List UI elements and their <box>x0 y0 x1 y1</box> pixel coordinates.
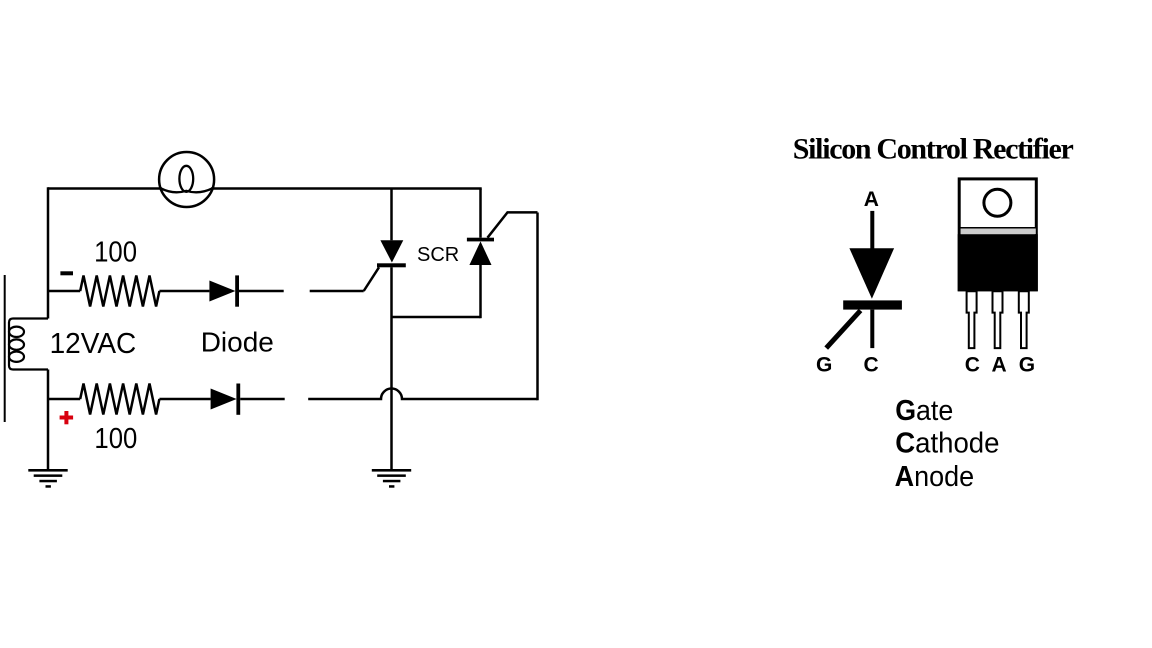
svg-text:100: 100 <box>94 237 137 269</box>
svg-text:G: G <box>1019 354 1035 377</box>
wire R1 to D1 <box>159 290 209 293</box>
SCR1 anode wire <box>390 189 393 241</box>
transformer T1 core line <box>4 275 6 422</box>
diode D1 <box>209 275 239 306</box>
svg-text:Anode: Anode <box>895 461 975 493</box>
wire SCR1 to SCR2 anode <box>392 316 481 319</box>
resistor R2 <box>80 384 159 415</box>
svg-text:100: 100 <box>94 423 137 455</box>
SCR symbol anode lead <box>870 211 874 250</box>
svg-text:G: G <box>816 353 832 376</box>
TO-220 package tab <box>959 179 1036 290</box>
minus polarity mark <box>60 271 73 275</box>
wire SCR1 cathode vertical <box>390 267 393 470</box>
plus polarity mark <box>60 411 74 424</box>
wire D1 right <box>239 290 284 293</box>
svg-text:A: A <box>992 354 1007 377</box>
svg-text:C: C <box>965 354 980 377</box>
ground GND2 <box>372 469 411 488</box>
wire R2 to D2 <box>159 398 210 401</box>
svg-text:12VAC: 12VAC <box>50 328 137 360</box>
transformer T1 secondary winding <box>9 319 48 370</box>
wire upper row left <box>48 290 80 293</box>
SCR symbol gate lead <box>826 311 860 349</box>
wire transformer lower vertical <box>47 370 50 471</box>
wire D2 right <box>240 398 285 401</box>
wire right vertical <box>536 213 539 401</box>
svg-text:SCR: SCR <box>417 244 459 266</box>
wire SCR1 gate lead <box>310 290 364 293</box>
SCR2 <box>467 238 494 265</box>
svg-text:Diode: Diode <box>201 327 274 358</box>
SCR symbol cathode lead <box>870 310 874 349</box>
wire SCR2 cathode vertical <box>479 189 482 238</box>
svg-text:C: C <box>864 353 879 376</box>
SCR1 <box>377 240 406 267</box>
resistor R1 <box>80 276 159 307</box>
TO-220 pin A <box>993 291 1003 348</box>
SCR symbol U1 <box>843 248 902 309</box>
diode D2 <box>211 384 241 415</box>
wire lower row right with hop <box>308 389 537 400</box>
svg-text:A: A <box>864 188 879 211</box>
SCR1 gate diagonal <box>364 267 379 291</box>
svg-text:Silicon Control Rectifier: Silicon Control Rectifier <box>793 132 1074 165</box>
svg-text:Gate: Gate <box>895 395 953 427</box>
lamp L1 <box>159 152 214 207</box>
wire SCR2 anode vertical <box>479 265 482 318</box>
TO-220 pin C <box>967 291 977 348</box>
TO-220 separator line <box>960 227 1037 229</box>
ground GND1 <box>28 469 67 488</box>
wire lower row left <box>48 398 80 401</box>
wire SCR2 gate <box>488 212 538 237</box>
wire top horizontal <box>48 187 482 190</box>
TO-220 body <box>958 234 1038 291</box>
wire left vertical upper <box>47 187 50 318</box>
TO-220 mounting hole <box>984 189 1011 216</box>
TO-220 pin G <box>1019 291 1029 348</box>
svg-text:Cathode: Cathode <box>895 428 999 460</box>
TO-220 gray band <box>961 229 1036 235</box>
